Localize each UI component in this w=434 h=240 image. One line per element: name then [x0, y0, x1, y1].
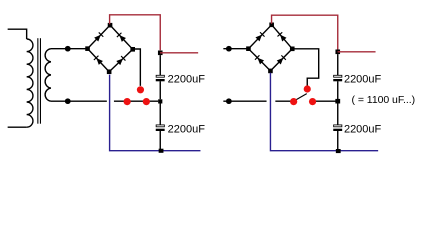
switch SW1 contact B (red) [137, 86, 144, 93]
diode D2 (AC2 to +) [117, 33, 126, 42]
capacitor C4 positive plate [334, 125, 342, 127]
wire AC input stub 1 right circuit [223, 48, 248, 50]
node junction V+ right [335, 50, 340, 55]
wire AC input stub 2 right circuit [223, 100, 266, 102]
node terminal dot AC1 left [65, 46, 71, 52]
transformer T1 core line 2 [39, 38, 41, 124]
diode D3 (- to AC1) [94, 56, 103, 65]
switch SW2 contact A (red) [290, 98, 297, 105]
capacitor C1 positive plate [156, 75, 164, 77]
svg-text:2200uF: 2200uF [344, 73, 382, 85]
wire bridge2 AC2 corner to switch pole B jog [292, 49, 318, 86]
wire rail top to C3 [337, 54, 339, 75]
node bridge2 corner AC1 [246, 46, 251, 51]
switch SW1 contact C (red) [143, 98, 150, 105]
node terminal dot AC2 left [65, 98, 71, 104]
diode D1 (AC1 to +) [94, 32, 103, 41]
diode D4 (- to AC2) [116, 56, 125, 65]
capacitor C3 negative plate [333, 79, 342, 81]
bridge rectifier BR1 diamond wires [88, 25, 133, 72]
wire switch feed (AC2 to cap midpoint, closed) [114, 100, 158, 102]
svg-text:2200uF: 2200uF [344, 123, 382, 135]
wire secondary bottom lead [51, 100, 107, 102]
transformer T1 primary winding [27, 39, 33, 127]
wire rail top to C1 [159, 55, 161, 75]
node junction bottom rail left [159, 149, 164, 153]
transformer T1 primary bottom lead wire [8, 126, 27, 128]
wire C2 to bottom rail [159, 131, 161, 150]
capacitor C2 positive plate [156, 125, 164, 127]
node terminal dot AC2 right [226, 98, 232, 104]
node bridge corner + [108, 23, 113, 28]
wire negative blue rail left circuit [110, 75, 201, 151]
wire midpoint to C2 [159, 104, 161, 125]
node bridge2 corner - [268, 69, 273, 74]
transformer T1 core line 1 [37, 38, 39, 124]
node junction bottom rail right [336, 149, 341, 153]
node bridge2 corner + [269, 23, 274, 28]
node bridge corner AC2 [130, 47, 135, 52]
switch SW2 contact B (red) [304, 85, 311, 92]
wire positive red from bridge2 + to rail [272, 15, 338, 49]
node junction midpoint left [158, 99, 162, 103]
node bridge2 corner AC2 [290, 47, 295, 52]
wire C3 to midpoint junction right [337, 81, 339, 99]
node bridge corner AC1 [85, 46, 90, 51]
svg-text:2200uF: 2200uF [168, 123, 206, 135]
diode D6 (AC2 to +) [277, 32, 286, 41]
svg-text:2200uF: 2200uF [168, 73, 206, 85]
node bridge corner - [107, 69, 112, 74]
node terminal dot AC1 right [226, 46, 232, 52]
wire secondary top lead to bridge AC1 [51, 48, 88, 50]
svg-text:( = 1100 uF...): ( = 1100 uF...) [352, 94, 416, 106]
wire positive red from bridge + to rail [110, 15, 161, 50]
wire bridge AC2 corner to switch pole B [133, 49, 141, 86]
transformer T1 secondary winding [45, 49, 51, 102]
node junction midpoint right [335, 99, 340, 104]
capacitor C1 negative plate [156, 79, 165, 81]
switch SW2 lever A to B [295, 94, 306, 101]
node junction V+ [158, 51, 163, 56]
wire positive output red right [338, 51, 376, 53]
diode D7 (- to AC1) [255, 55, 264, 64]
transformer T1 primary top lead wire [8, 29, 27, 39]
wire midpoint to C4 [337, 104, 339, 125]
wire negative blue rail right circuit [270, 73, 378, 151]
capacitor C3 positive plate [334, 75, 342, 77]
wire switch contact C to midpoint junction right [313, 100, 336, 102]
capacitor C2 negative plate [156, 129, 165, 131]
diode D8 (- to AC2) [277, 55, 286, 64]
wire crossover resume to switch contact A right [275, 100, 293, 102]
switch SW2 contact C (red) [309, 98, 316, 105]
capacitor C4 negative plate [333, 129, 342, 131]
wire C4 to bottom rail right [337, 131, 339, 150]
diode D5 (AC1 to +) [255, 32, 264, 41]
bridge rectifier BR2 diamond wires [248, 25, 292, 71]
wire positive output red [160, 52, 198, 54]
switch SW1 contact A (red) [124, 98, 131, 105]
wire C1 to midpoint junction [159, 81, 161, 99]
